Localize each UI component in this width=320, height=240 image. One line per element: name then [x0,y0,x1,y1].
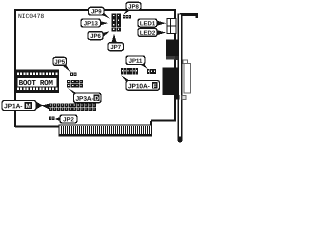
svg-text:F: F [153,83,157,90]
upper black connector block [166,40,179,57]
jumper block JP3A-D (4x2) [67,80,83,88]
svg-text:JP2: JP2 [63,117,74,123]
svg-text:JP11: JP11 [129,59,143,65]
label JP6 [88,31,110,40]
bracket top tab [180,13,198,18]
label LED2 [138,28,166,36]
svg-text:D: D [94,95,99,102]
jumper JP8 header (3 pin) [123,15,131,18]
label JP13 [81,19,108,27]
label JP11 [126,56,148,69]
svg-text:JP6: JP6 [90,34,101,40]
label JP5 [53,57,71,72]
bracket bar [178,14,183,143]
svg-text:NIC0478: NIC0478 [18,13,44,20]
svg-text:JP10A-: JP10A- [128,83,150,90]
jumper JP11 header (3 pin) [147,69,156,74]
BOOT ROM chip [15,70,59,94]
svg-text:LED2: LED2 [140,31,156,37]
lower black connector block [163,68,180,96]
dark nub beside bar [175,56,178,60]
svg-text:LED1: LED1 [140,21,156,27]
label JP8 [123,2,141,14]
svg-text:JP13: JP13 [84,21,99,27]
jumper JP5 header (2 pin) [70,73,77,77]
svg-text:JP5: JP5 [54,60,65,66]
jumper header JP1A-M (12x2) [49,104,96,112]
edge connector fingers [59,125,152,136]
LED mount block on bracket [167,18,176,33]
label JP3A-D [68,88,101,103]
svg-text:JP8: JP8 [128,5,139,11]
label JP2 [55,115,77,123]
dark strip under upper block [166,56,176,60]
svg-text:BOOT ROM: BOOT ROM [19,80,54,88]
svg-text:M: M [26,103,31,110]
label JP7 [108,34,124,51]
external connector on bracket [183,60,190,93]
jumper block JP6/JP9/JP13 (2x4) [112,14,121,32]
svg-text:JP7: JP7 [110,45,121,51]
svg-text:JP1A-: JP1A- [4,103,22,110]
label JP1A-M [2,101,49,111]
jumper strip JP10A-F (6x2) [121,68,138,75]
card outline [15,10,175,127]
connector bottom tab black [176,95,180,100]
svg-text:JP3A-: JP3A- [75,96,93,103]
label JP10A-F [121,75,159,90]
label JP9 [89,7,110,18]
jumper JP2 header (2 pin) [49,117,54,121]
label LED1 [138,19,166,27]
connector bottom tab gray [182,95,186,99]
svg-text:JP9: JP9 [91,9,102,15]
